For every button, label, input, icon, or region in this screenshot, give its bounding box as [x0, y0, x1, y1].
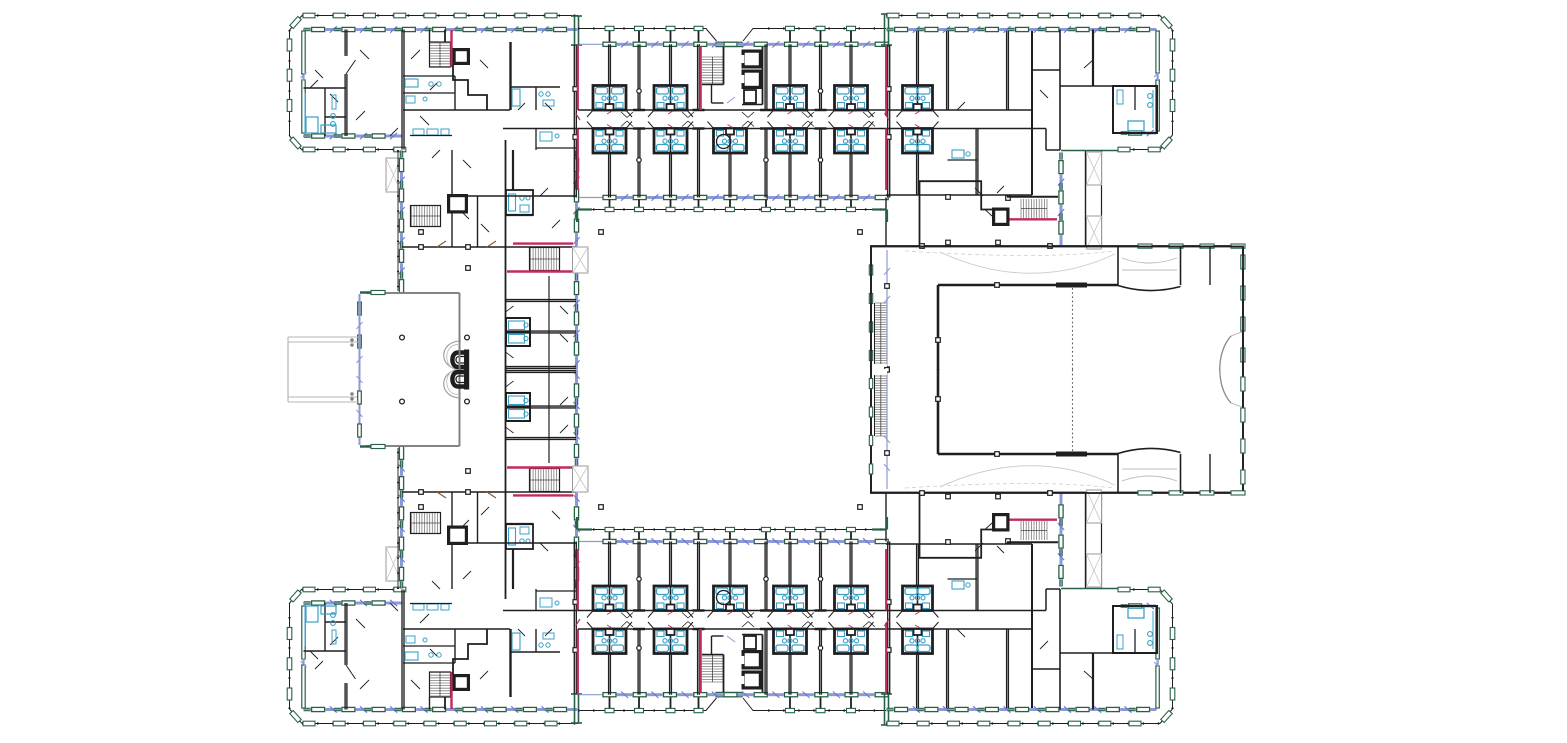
hall courtyard edge wall	[885, 198, 887, 247]
bath pod lower x851	[829, 122, 874, 154]
service stair ST4	[1007, 197, 1058, 218]
top-left pavilion window band bottom	[303, 133, 403, 139]
suite east wall	[1031, 30, 1033, 196]
top wing red wall W upper	[577, 46, 579, 110]
connector corridor bottom wall	[503, 128, 578, 130]
elevator E1	[453, 49, 470, 65]
bath pod upper x609	[587, 86, 632, 118]
porte-cochere	[288, 337, 359, 397]
corridor node	[419, 230, 471, 271]
hall nodes	[920, 244, 1053, 343]
top wing end wall E black	[886, 45, 891, 198]
top wing end wall E (green)	[881, 14, 892, 45]
connector wall e	[460, 196, 489, 247]
top wing end wall W black	[573, 45, 578, 198]
hall wall seg b	[1180, 246, 1182, 285]
left wing stair ST3	[530, 248, 560, 271]
top-left pavilion columns	[287, 13, 557, 152]
courtyard corner green E	[872, 210, 887, 223]
bath pod lower x670	[648, 122, 693, 154]
gray terrace T2	[573, 247, 589, 273]
shaft X1	[1087, 152, 1102, 185]
service block walls	[920, 181, 994, 246]
top-right pavilion columns	[887, 13, 1175, 152]
chamfer mark SW-pav	[290, 137, 301, 149]
grand stair upper U	[452, 350, 469, 370]
connector step wall	[453, 65, 487, 111]
grand stair outer curve	[444, 341, 461, 370]
hall balcony arc	[1220, 332, 1242, 403]
stair ST2	[411, 206, 441, 227]
connector west wall heavy	[509, 42, 511, 110]
suite partition b	[947, 30, 949, 111]
partition node circles	[637, 89, 823, 162]
corridor end red tick W	[576, 113, 581, 120]
left wing pod P3	[506, 190, 533, 215]
right wing green wall	[1061, 150, 1118, 152]
top wing upper partitions	[604, 44, 858, 110]
left wing partition b	[506, 331, 577, 333]
hall stair west	[874, 303, 887, 370]
right wing wall	[1086, 150, 1102, 246]
left wing partition a	[506, 300, 577, 302]
hall proscenium bar	[1056, 283, 1087, 288]
suite pod lower	[897, 122, 939, 154]
top-left pavilion colonnade outline	[290, 16, 579, 151]
left wing east window band	[573, 150, 579, 370]
top-right pavilion bath walls	[1113, 86, 1157, 133]
west wing colonnade line	[397, 150, 399, 291]
suite partition d	[917, 129, 919, 196]
top wing colonnade	[578, 29, 886, 47]
hall room curve light	[1122, 258, 1177, 270]
top wing window band top	[579, 41, 888, 47]
top-right pavilion window band right	[1154, 31, 1160, 131]
bath pod lower x609	[587, 122, 632, 154]
top-right pavilion window band top	[886, 26, 1157, 32]
top wing bottom colonnade columns	[605, 200, 856, 212]
connector wall c	[452, 150, 505, 247]
top-left pavilion east wall	[402, 30, 404, 150]
hall inner wall west	[937, 285, 940, 370]
bath pod lower x790	[768, 122, 813, 154]
left wing red wall bottom	[507, 270, 573, 272]
suite corridor end step	[1032, 70, 1060, 150]
left wing small bath	[536, 129, 576, 151]
hall inner wall north	[938, 284, 1118, 287]
suite partition a	[917, 30, 919, 111]
connector stair side wall	[430, 30, 446, 43]
top-left pavilion bath fixtures	[305, 93, 336, 133]
top-right pavilion colonnade	[886, 16, 1173, 150]
connector small rooms NW	[403, 76, 455, 110]
top wing colonnade columns	[605, 26, 856, 42]
top wing corridor north wall	[578, 109, 1032, 111]
connector bath room	[511, 87, 561, 110]
hall outer walls	[871, 246, 1243, 493]
top wing center red wall	[699, 46, 702, 110]
gray terrace T1	[386, 158, 401, 192]
lobby window band	[357, 294, 363, 445]
top wing facade bottom band	[579, 194, 888, 200]
hall window marks right	[1241, 255, 1245, 362]
top-left pavilion inner room walls	[304, 80, 347, 136]
chamfer mark SE-pav	[1161, 137, 1172, 149]
elevator E3	[993, 208, 1010, 226]
top wing red wall E upper	[885, 46, 887, 116]
mirrored lower half of symmetric plan	[287, 247, 1245, 726]
service block nodes	[946, 195, 1011, 245]
lobby corridor wall	[402, 241, 576, 249]
corridor door swings	[621, 112, 875, 127]
courtyard node b	[858, 230, 863, 235]
west wing window band	[398, 150, 404, 293]
bath pod upper x790	[768, 86, 813, 118]
top wing lower partitions	[604, 129, 858, 198]
connector stair ST1	[430, 42, 451, 67]
connector corridor top wall	[403, 109, 510, 111]
top-left pavilion room partition	[344, 30, 356, 137]
left wing pod P4	[506, 306, 531, 358]
right wing window band	[1058, 152, 1064, 246]
lobby corner marks	[360, 291, 385, 449]
suite partition e	[976, 129, 978, 196]
top-right pavilion window band bottom	[1120, 130, 1157, 136]
connector stair red wall	[450, 30, 452, 67]
connector wall f	[420, 60, 488, 168]
courtyard node a	[599, 230, 604, 235]
top wing red wall E lower	[885, 129, 887, 191]
chamfer mark NE	[1161, 17, 1172, 29]
suite south wall	[886, 194, 1032, 196]
hall stage gray curves	[905, 251, 1115, 273]
left wing partition c	[506, 367, 577, 369]
elevator E2	[448, 195, 468, 214]
top wing red wall W lower	[577, 129, 579, 191]
top wing corridor south wall	[578, 128, 1032, 130]
lobby gray walls	[366, 293, 460, 446]
top wing facade bottom colonnade	[578, 209, 886, 211]
top-right pavilion partition	[1084, 30, 1093, 87]
corridor end red tick E	[885, 113, 890, 120]
service door swings	[975, 186, 1004, 216]
suite pod upper	[897, 86, 939, 118]
suite partition c	[1007, 30, 1009, 111]
left wing west wall heavy	[512, 150, 514, 196]
courtyard corner green W	[577, 210, 592, 223]
bath pod upper x670	[648, 86, 693, 118]
suite inner walls	[948, 102, 978, 160]
hall window band left	[869, 250, 890, 372]
left wing wall d	[506, 188, 577, 228]
left wing corridor wall	[549, 276, 568, 370]
left wing red wall top	[513, 242, 573, 244]
hall window marks top	[1138, 244, 1245, 248]
chamfer mark NW	[290, 17, 301, 29]
connector kitchenette	[410, 129, 452, 136]
top wing center stair	[702, 47, 735, 103]
hall center dotted line	[1072, 288, 1074, 370]
top-left pavilion door swings	[315, 50, 420, 136]
lobby column LC2	[465, 335, 470, 340]
top wing elevators	[741, 47, 763, 105]
bath pod upper x851	[829, 86, 874, 118]
hall right top room wall	[1209, 246, 1211, 285]
top-right pavilion wall s	[1060, 30, 1113, 151]
shaft X2	[1087, 216, 1102, 249]
top-left pavilion window band left	[301, 31, 307, 133]
top wing end wall W (green)	[571, 16, 582, 45]
bath pod lower center	[708, 122, 753, 154]
lobby column LC1	[400, 335, 405, 340]
hall wall seg a	[1117, 246, 1119, 285]
service red wall	[1010, 218, 1058, 220]
top-right pavilion bath fixtures	[1117, 90, 1153, 131]
hall north curve	[1118, 286, 1181, 291]
top-left pavilion window band top	[303, 26, 578, 32]
left wing west wall	[505, 140, 507, 370]
